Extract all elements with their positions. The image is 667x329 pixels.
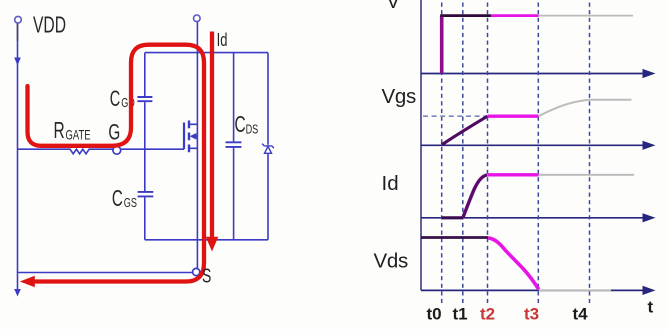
svg-text:t0: t0 [427,305,442,324]
svg-text:t3: t3 [524,305,539,324]
svg-text:Vds: Vds [374,250,408,273]
svg-text:Id: Id [217,31,228,51]
svg-text:t1: t1 [453,305,468,324]
svg-text:S: S [202,264,211,287]
svg-text:R: R [54,118,65,144]
svg-text:t: t [648,298,654,317]
svg-text:t2: t2 [480,305,495,324]
svg-text:GATE: GATE [66,128,91,143]
svg-text:DS: DS [246,123,259,137]
svg-text:Id: Id [382,172,399,195]
svg-text:GS: GS [124,197,137,211]
svg-text:C: C [235,112,246,138]
svg-text:C: C [110,86,120,111]
svg-text:Vgs: Vgs [382,85,416,108]
svg-text:VDD: VDD [33,13,66,39]
svg-text:t4: t4 [573,305,589,324]
svg-text:V: V [387,0,401,13]
svg-text:C: C [112,186,123,212]
svg-text:G: G [108,121,120,146]
